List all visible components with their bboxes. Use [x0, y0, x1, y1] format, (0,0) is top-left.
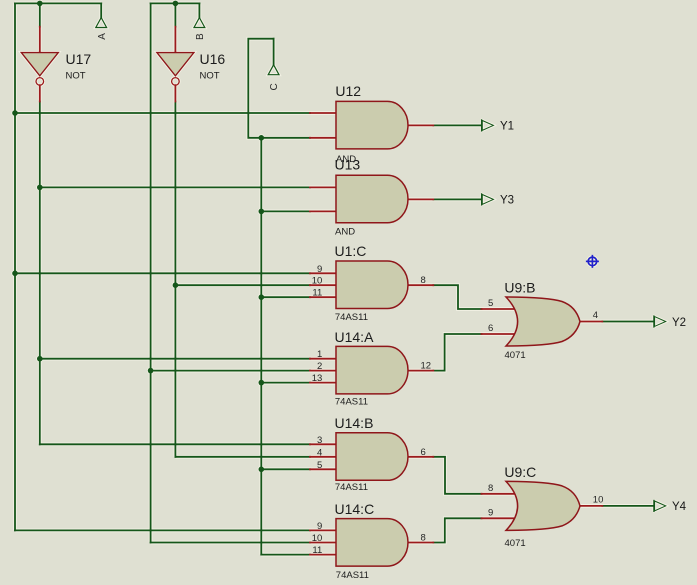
svg-text:U14:B: U14:B	[335, 415, 374, 431]
svg-text:74AS11: 74AS11	[336, 570, 369, 581]
pin U12 input 1	[310, 112, 336, 114]
pin U12 input 2	[310, 137, 336, 139]
svg-text:Y2: Y2	[672, 317, 686, 329]
wire terminal-C drop	[273, 39, 275, 65]
wire U12 input 1	[15, 112, 310, 114]
junction B to U14:A pin2	[148, 368, 154, 374]
origin marker	[586, 255, 599, 268]
pin U13 output	[408, 198, 433, 200]
wire U17 input from junction	[39, 3, 41, 26]
wire U13 output to Y3	[433, 198, 481, 200]
pin U9:C input 8	[482, 493, 516, 495]
svg-text:Y3: Y3	[500, 195, 514, 207]
wire terminal-A drop	[100, 3, 102, 17]
junction C to U13 pin2	[259, 209, 265, 215]
svg-text:AND: AND	[335, 227, 355, 238]
OR gate U9:B	[488, 280, 598, 361]
wire U9:B output to Y2	[602, 321, 653, 323]
svg-text:U9:B: U9:B	[504, 280, 535, 296]
NOT gate U17	[21, 51, 91, 85]
pin U14:A input 2	[310, 370, 336, 372]
wire U14:B out to U9:C pin8	[433, 457, 481, 494]
pin U9:C input 9	[482, 517, 516, 519]
svg-text:B: B	[195, 33, 206, 40]
terminal Y2	[654, 316, 686, 329]
junction C to U14:A pin13	[259, 380, 265, 386]
AND gate U14:B	[317, 415, 426, 493]
svg-text:5: 5	[317, 460, 322, 471]
svg-text:74AS11: 74AS11	[335, 312, 368, 323]
svg-text:U16: U16	[200, 51, 226, 67]
wire U1:C input 10	[175, 284, 310, 286]
svg-text:10: 10	[312, 533, 323, 544]
svg-text:74AS11: 74AS11	[335, 482, 368, 493]
pin U14:B input 4	[310, 456, 336, 458]
svg-text:9: 9	[317, 264, 322, 275]
pin U9:B output 4	[580, 321, 602, 323]
pin U9:B input 5	[482, 308, 516, 310]
pin U9:B input 6	[482, 333, 516, 335]
pin U14:A input 13	[310, 382, 336, 384]
wire U9:C output to Y4	[602, 505, 653, 507]
svg-text:10: 10	[312, 276, 323, 287]
svg-text:10: 10	[593, 495, 604, 506]
svg-text:4: 4	[593, 310, 598, 321]
junction C to U1:C pin11	[259, 294, 265, 300]
svg-text:NOT: NOT	[66, 70, 86, 81]
svg-text:Y4: Y4	[672, 501, 687, 513]
AND gate U13	[335, 157, 409, 238]
junction A to U12 pin1	[12, 110, 18, 116]
pin U14:A output 12	[408, 370, 433, 372]
svg-text:9: 9	[317, 521, 322, 532]
wire U14:A out to U9:B pin6	[433, 334, 481, 371]
terminal Y4	[654, 500, 687, 513]
pin U12 output	[408, 124, 433, 126]
wire net NOT-B vertical	[174, 102, 176, 457]
AND gate U14:C	[312, 501, 426, 581]
svg-text:8: 8	[421, 533, 426, 544]
pin U13 input 1	[310, 186, 336, 188]
pin U17 output	[39, 85, 41, 101]
wire net C top run	[248, 39, 273, 138]
terminal C	[268, 65, 280, 91]
wire U13 input 2	[261, 210, 310, 212]
wire U14:C input 10	[151, 542, 310, 544]
pin U14:C output 8	[408, 542, 433, 544]
wire U12 input 2	[261, 137, 310, 139]
wire U14:C input 9	[15, 529, 310, 531]
wire U1:C input 9	[15, 272, 310, 274]
svg-text:U1:C: U1:C	[335, 243, 367, 259]
wire U13 input 1	[40, 186, 310, 188]
NOT gate U16	[157, 51, 225, 85]
pin U14:C input 9	[310, 529, 336, 531]
terminal B	[194, 18, 206, 40]
wire U14:A input 2	[151, 370, 310, 372]
svg-text:11: 11	[312, 288, 322, 299]
junction NOT-A to U14:A pin1	[37, 356, 43, 362]
svg-text:3: 3	[317, 435, 322, 446]
svg-text:U14:A: U14:A	[335, 329, 375, 345]
wire U14:B input 4	[175, 456, 310, 458]
wire U1:C input 11	[261, 296, 310, 298]
svg-text:4: 4	[317, 447, 322, 458]
svg-text:Y1: Y1	[500, 121, 514, 133]
svg-text:6: 6	[488, 323, 493, 334]
wire U14:C input 11	[261, 554, 310, 556]
svg-text:13: 13	[312, 373, 323, 384]
pin U14:B output 6	[408, 456, 433, 458]
svg-text:U14:C: U14:C	[335, 501, 375, 517]
wire net B left vertical	[150, 3, 152, 542]
wire U14:C out to U9:C pin9	[433, 518, 481, 542]
wire net NOT-A vertical	[39, 102, 41, 445]
pin U1:C input 10	[310, 284, 336, 286]
OR gate U9:C	[488, 464, 603, 549]
junction at B top	[173, 1, 179, 7]
svg-text:11: 11	[312, 545, 322, 556]
svg-text:2: 2	[317, 361, 322, 372]
svg-text:NOT: NOT	[200, 70, 220, 81]
wire net C main vertical	[260, 138, 262, 555]
wire U16 input from junction	[174, 3, 176, 26]
junction C to U14:B pin5	[259, 467, 265, 473]
terminal A	[96, 18, 108, 40]
wire U12 output to Y1	[433, 124, 481, 126]
wire terminal-B drop	[198, 3, 200, 17]
wire net A left vertical	[14, 3, 16, 530]
AND gate U12	[335, 83, 408, 165]
svg-text:9: 9	[488, 508, 493, 519]
svg-text:A: A	[97, 33, 108, 40]
wire U14:A input 1	[40, 358, 310, 360]
pin U14:B input 3	[310, 443, 336, 445]
terminal Y1	[482, 120, 514, 133]
pin U1:C input 11	[310, 296, 336, 298]
pin U14:C input 11	[310, 554, 336, 556]
pin U16 output	[174, 85, 176, 101]
pin U1:C input 9	[310, 272, 336, 274]
wire net A top horizontal	[15, 2, 101, 4]
svg-text:C: C	[269, 83, 280, 90]
wire U1:C out to U9:B pin5	[433, 285, 481, 309]
svg-text:U9:C: U9:C	[504, 464, 536, 480]
pin U13 input 2	[310, 210, 336, 212]
pin U17 input	[39, 27, 41, 53]
pin U16 input	[174, 27, 176, 53]
junction at A top	[37, 1, 43, 7]
svg-text:8: 8	[421, 275, 426, 286]
svg-text:4071: 4071	[505, 538, 526, 549]
svg-text:U13: U13	[335, 157, 361, 173]
svg-text:U12: U12	[335, 83, 361, 99]
pin U14:C input 10	[310, 542, 336, 544]
svg-text:12: 12	[421, 361, 432, 372]
svg-text:8: 8	[488, 483, 493, 494]
wire net B top horizontal	[151, 2, 200, 4]
junction A to U1:C pin9	[12, 271, 18, 277]
wire U14:B input 3	[40, 443, 310, 445]
wire U14:A input 13	[261, 382, 310, 384]
junction C to U12 pin2	[259, 135, 265, 141]
AND gate U1:C	[312, 243, 426, 323]
junction NOT-A to U13 pin1	[37, 185, 43, 191]
svg-text:5: 5	[488, 298, 493, 309]
pin U14:A input 1	[310, 358, 336, 360]
junction NOT-B to U1:C pin10	[173, 282, 179, 288]
svg-text:74AS11: 74AS11	[335, 397, 368, 408]
svg-text:4071: 4071	[505, 350, 526, 361]
svg-text:1: 1	[317, 349, 322, 360]
pin U14:B input 5	[310, 468, 336, 470]
svg-text:6: 6	[421, 447, 426, 458]
pin U9:C output 10	[580, 505, 602, 507]
wire U14:B input 5	[261, 468, 310, 470]
AND gate U14:A	[312, 329, 431, 407]
pin U1:C output 8	[408, 284, 433, 286]
terminal Y3	[482, 194, 514, 207]
svg-text:U17: U17	[66, 51, 92, 67]
